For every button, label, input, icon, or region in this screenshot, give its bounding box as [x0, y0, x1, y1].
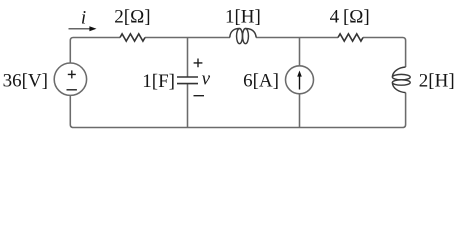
svg-text:2[H]: 2[H]	[419, 71, 455, 92]
wire capacitor branch lower	[187, 84, 189, 128]
inductor L2 loop 1	[392, 74, 410, 79]
inductor L2 bottom arch	[392, 83, 405, 93]
resistor R2 4-ohm zigzag	[338, 34, 363, 41]
capacitor C1 bottom plate	[177, 83, 198, 85]
wire top middle segment 1	[145, 37, 230, 39]
wire top-left corner and left upper segment	[70, 38, 120, 63]
current i arrow shaft	[69, 28, 90, 30]
current source I1 circle	[286, 66, 314, 94]
inductor L2 top arch	[392, 67, 405, 77]
svg-text:1[H]: 1[H]	[225, 7, 261, 28]
current source arrow shaft	[299, 75, 301, 90]
inductor L1 right arch	[246, 29, 257, 38]
inductor L1 loop 2	[243, 28, 249, 43]
capacitor minus sign	[194, 95, 205, 97]
wire top middle segment 2	[256, 37, 338, 39]
wire capacitor branch upper	[187, 38, 189, 78]
inductor L1 left arch	[230, 29, 240, 38]
inductor L1 loop 1	[237, 28, 243, 43]
svg-text:v: v	[202, 69, 211, 90]
svg-text:6[A]: 6[A]	[243, 71, 279, 92]
svg-text:i: i	[81, 8, 86, 29]
capacitor plus sign	[194, 59, 203, 68]
svg-text:4 [Ω]: 4 [Ω]	[330, 7, 370, 28]
svg-text:36[V]: 36[V]	[3, 71, 48, 92]
svg-text:1[F]: 1[F]	[142, 71, 175, 92]
wire right upper + top-right corner	[363, 38, 406, 68]
wire current-source branch upper	[299, 38, 301, 66]
capacitor C1 top plate	[177, 76, 198, 78]
voltage source V1 circle	[54, 63, 86, 95]
current source arrowhead	[297, 71, 302, 77]
wire current-source branch lower	[299, 94, 301, 128]
inductor L2 loop 2	[392, 80, 410, 85]
wire left lower + bottom + right lower	[70, 93, 405, 128]
current i arrowhead	[89, 26, 96, 31]
voltage source plus sign	[68, 70, 76, 78]
voltage source minus sign	[67, 89, 77, 91]
resistor R1 2-ohm zigzag	[120, 34, 145, 41]
svg-text:2[Ω]: 2[Ω]	[114, 7, 150, 28]
